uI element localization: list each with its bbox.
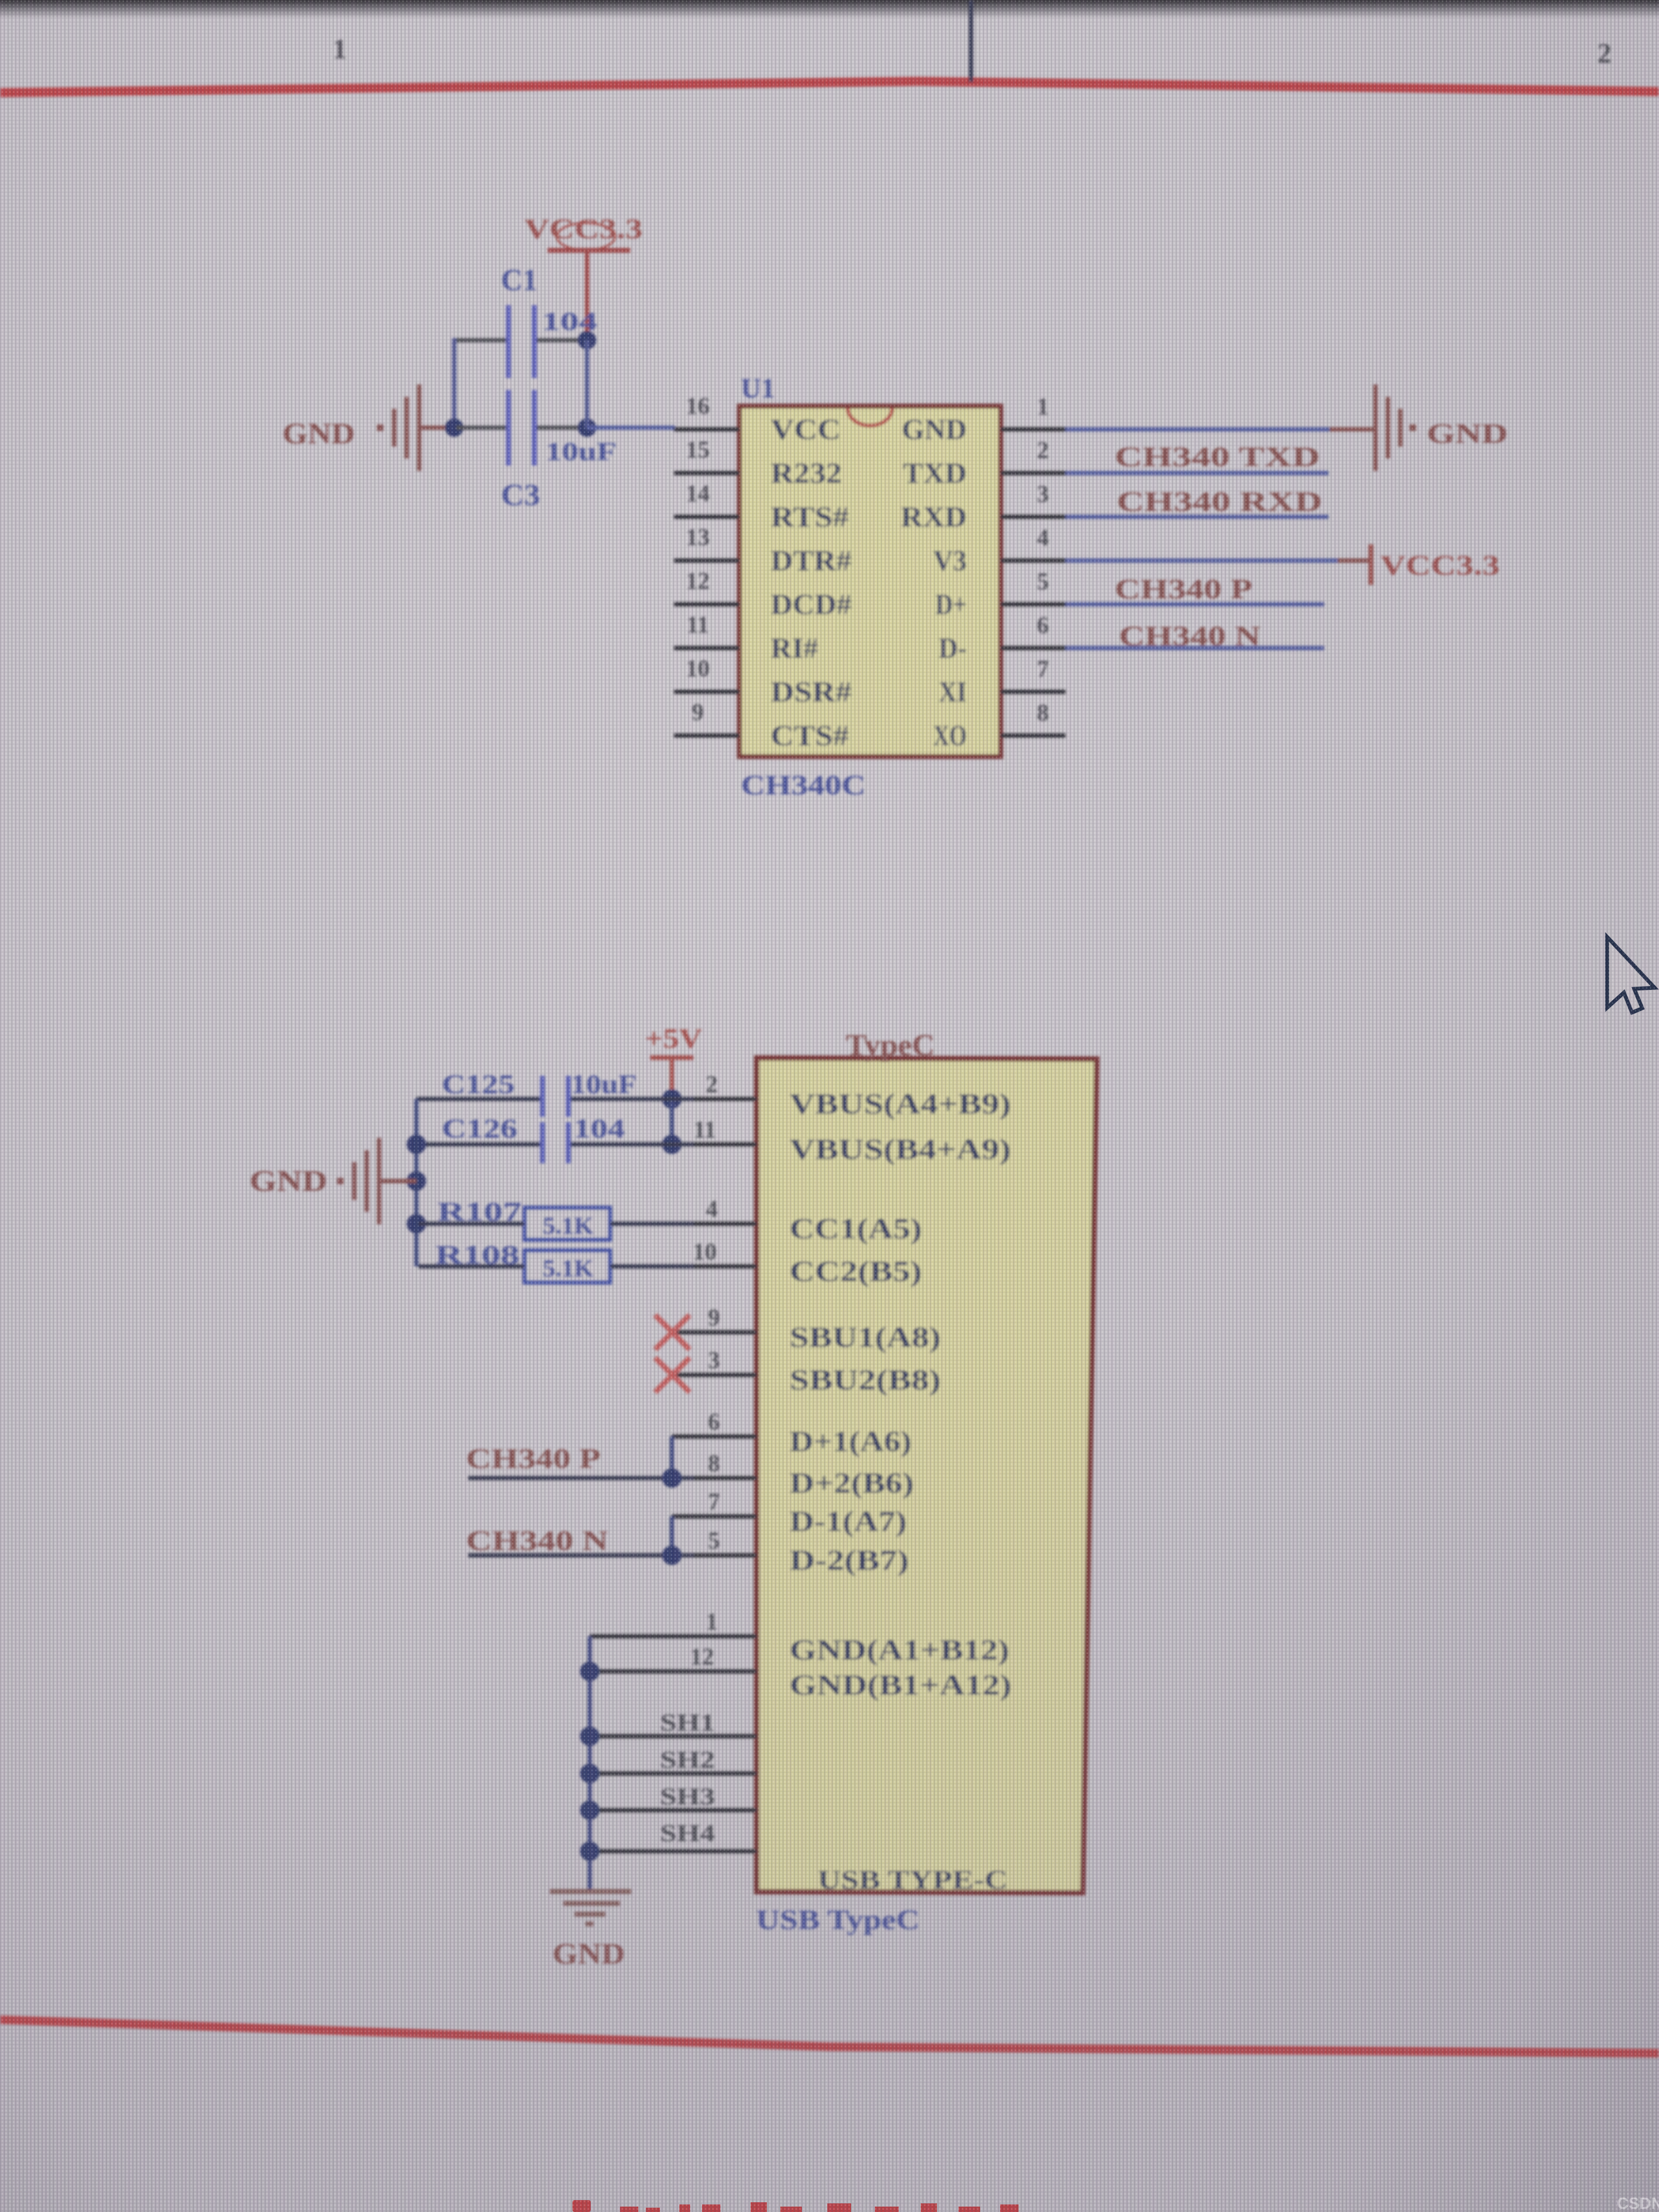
sheet top border (red) — [0, 77, 1659, 97]
no-connect X on SBU1 pin 9 — [655, 1315, 690, 1350]
wire CH340_RXD — [1065, 515, 1328, 519]
wire C125 row — [416, 1097, 540, 1101]
node junction R107 row — [407, 1214, 426, 1233]
wire main rail to U1 pin16 — [587, 426, 675, 430]
wire CH340_N — [1065, 646, 1324, 650]
ground GND (right of U1) — [1373, 385, 1508, 471]
node junction pin8 — [662, 1468, 682, 1488]
node junction SH2 row — [580, 1764, 599, 1783]
wire junction vertical (left) — [452, 338, 456, 428]
wire CH340_N to pin5 — [468, 1553, 694, 1557]
wire pin1 to GND — [1065, 427, 1330, 431]
TypeC pin numbers — [690, 1071, 720, 1670]
wire CH340_P — [1065, 602, 1324, 606]
node junction VCC top — [578, 331, 596, 349]
capacitor C1 — [501, 264, 597, 378]
resistor R108 — [419, 1239, 694, 1283]
wire GND bus vertical — [588, 1636, 592, 1890]
node junction VBUS pin11 — [662, 1135, 682, 1154]
U1 left pin stubs 16..9 — [674, 427, 739, 738]
node junction pin12 row — [580, 1662, 599, 1681]
partial red text at bottom edge — [572, 2200, 1019, 2212]
wire vertical pin6-pin8 — [670, 1437, 674, 1478]
node junction C126 row — [407, 1135, 426, 1154]
wire C126 row — [416, 1142, 540, 1147]
wire C3 to VCC junction — [537, 426, 588, 430]
capacitor C126 — [442, 1113, 625, 1163]
power port VCC3.3 (right) — [1368, 544, 1500, 585]
power port +5V — [645, 1023, 702, 1100]
sheet bottom border (red) — [0, 2015, 1659, 2058]
wire VCC drop — [585, 340, 589, 428]
wire VBUS vertical — [670, 1099, 674, 1144]
ground GND (TypeC left) — [249, 1138, 416, 1224]
node junction +5V / VBUS pin2 — [662, 1089, 682, 1109]
node junction left — [445, 419, 463, 437]
wire left bus vertical — [414, 1099, 419, 1266]
connector TypeC body — [756, 1029, 1097, 1935]
node junction main rail — [578, 419, 596, 437]
node junction SH1 row — [580, 1727, 599, 1746]
wire C3 branch — [456, 426, 506, 430]
earth ground symbol — [550, 1889, 631, 1926]
no-connect X on SBU2 pin 3 — [655, 1358, 690, 1392]
U1 left pin numbers — [686, 393, 710, 725]
node junction SH3 row — [580, 1800, 599, 1820]
ground GND (top-left) — [282, 385, 454, 471]
node junction SH4 row — [580, 1842, 599, 1861]
wire CH340_P to pin8 — [468, 1476, 694, 1480]
sheet column divider — [969, 0, 973, 82]
wire vertical pin7-pin5 — [670, 1516, 674, 1555]
TypeC pin stubs — [590, 1097, 757, 1853]
U1 right pin names — [901, 413, 967, 752]
U1 right pin numbers — [1037, 393, 1049, 726]
TypeC pin names — [790, 1088, 1011, 1701]
node junction pin5 — [662, 1546, 682, 1565]
mouse cursor — [1607, 937, 1655, 1013]
capacitor C125 — [442, 1069, 637, 1117]
U1 right pin stubs 1..8 — [1001, 427, 1065, 738]
wire C1 branch right — [537, 338, 589, 342]
wire C1 branch left — [452, 338, 506, 342]
capacitor C3 — [501, 390, 617, 512]
node junction GND tap — [407, 1171, 426, 1191]
wire CH340_TXD — [1065, 471, 1328, 475]
power port VCC3.3 (top) — [524, 214, 643, 342]
wire pin4 to VCC3.3 — [1065, 558, 1338, 563]
resistor R107 — [419, 1196, 694, 1240]
U1 left pin names — [771, 413, 852, 752]
shield pin labels SH1-SH4 — [660, 1709, 715, 1846]
IC U1 CH340C body — [739, 373, 1001, 801]
